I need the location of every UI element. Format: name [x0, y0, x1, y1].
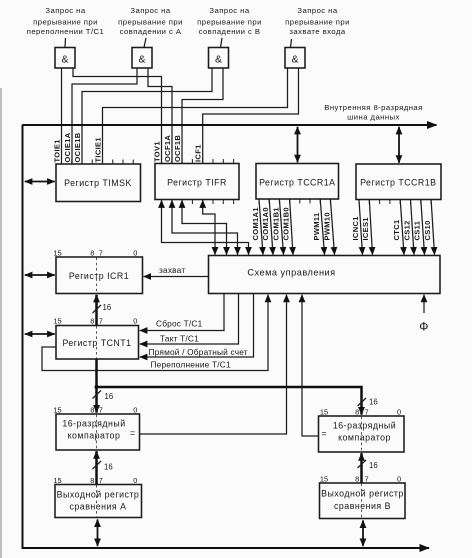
svg-text:7: 7	[99, 406, 103, 415]
svg-text:0: 0	[133, 406, 137, 415]
svg-text:CTC1: CTC1	[392, 220, 401, 241]
output compare register B	[320, 483, 406, 519]
register ICR1	[56, 257, 143, 294]
bus arrow to ICR1 (bidirectional)	[25, 274, 55, 276]
label: interrupt on overflow T/C1	[27, 6, 105, 36]
svg-text:Запрос на: Запрос на	[297, 6, 337, 15]
svg-text:Выходной регистр: Выходной регистр	[57, 490, 140, 500]
register B bit numbers	[320, 475, 401, 484]
output compare register A feed	[95, 451, 98, 484]
svg-text:переполнении Т/С1: переполнении Т/С1	[27, 27, 105, 36]
register A bit numbers	[53, 476, 137, 485]
svg-text:сравнения А: сравнения А	[70, 502, 127, 512]
comparator B output to control	[302, 295, 319, 436]
stub label1 to gate1	[64, 38, 67, 48]
svg-text:16-разрядный: 16-разрядный	[62, 419, 125, 429]
svg-text:15: 15	[320, 475, 328, 484]
slash 16 near comparator B	[358, 398, 367, 406]
svg-text:COM1A0: COM1A0	[261, 207, 270, 240]
svg-text:7: 7	[364, 475, 368, 484]
TIMSK top bit ticks	[62, 160, 134, 165]
svg-text:Схема управления: Схема управления	[247, 268, 335, 278]
wire overflow T/C1	[42, 295, 268, 371]
comparator B bit split dashed	[361, 417, 363, 452]
svg-text:8: 8	[355, 475, 359, 484]
slash 16 compare A feed	[93, 461, 102, 469]
slash 16 compare B feed	[358, 460, 367, 468]
svg-text:8: 8	[90, 476, 94, 485]
svg-text:совпадении с В: совпадении с В	[199, 27, 261, 36]
output compare register B feed	[360, 453, 363, 483]
ICR1 bit numbers	[53, 249, 137, 258]
wire COM1A1	[259, 199, 263, 255]
register TCNT1	[56, 326, 139, 360]
svg-text:Выходной регистр: Выходной регистр	[321, 489, 404, 499]
label: interrupt on compare match A	[118, 6, 183, 36]
svg-text:OCF1B: OCF1B	[173, 135, 182, 162]
svg-text:8: 8	[90, 317, 94, 326]
svg-text:ICNC1: ICNC1	[351, 216, 360, 240]
svg-text:PWM10: PWM10	[322, 212, 331, 240]
svg-text:&: &	[138, 54, 145, 66]
register B bit split dashed	[361, 484, 363, 519]
svg-text:ICF1: ICF1	[193, 144, 202, 162]
register A to bottom bus (bidirectional)	[97, 519, 99, 546]
label: interrupt on compare match B	[197, 6, 262, 36]
wire gate3 to OCIE1B	[82, 68, 212, 164]
svg-text:15: 15	[53, 249, 61, 258]
svg-text:прерывание при: прерывание при	[197, 18, 262, 27]
svg-text:Запрос на: Запрос на	[209, 6, 249, 15]
wire clock T/C1	[140, 294, 239, 345]
slash 16 near comparator A	[93, 391, 102, 399]
16-bit branch to comparator B	[96, 387, 362, 415]
wire gate2 to OCF1A	[148, 68, 172, 164]
wire COM1B0	[290, 199, 293, 255]
wire gate1 to TOIE1	[61, 68, 63, 164]
svg-text:совпадении с А: совпадении с А	[120, 27, 182, 36]
comparator B	[319, 416, 405, 452]
gate U1 (& overflow)	[55, 48, 75, 69]
TCNT1 bit numbers	[53, 317, 137, 326]
register TCCR1B	[356, 164, 441, 200]
register B to bottom bus (bidirectional)	[362, 520, 364, 546]
svg-text:&: &	[61, 54, 68, 66]
bus riser to TCCR1B (bidirectional)	[398, 127, 400, 163]
svg-text:Переполнение Т/С1: Переполнение Т/С1	[151, 360, 231, 370]
svg-text:Ф: Ф	[419, 320, 429, 334]
slash 16 on capture bus	[93, 305, 102, 313]
svg-text:сравнения В: сравнения В	[334, 501, 391, 511]
svg-text:&: &	[291, 54, 298, 66]
wire CS10	[431, 200, 434, 255]
label: interrupt on input capture	[285, 6, 350, 36]
svg-text:=: =	[322, 429, 328, 439]
comparator A output to control	[140, 295, 287, 434]
register TCCR1A	[256, 164, 339, 200]
svg-text:0: 0	[133, 249, 137, 258]
svg-text:16: 16	[104, 463, 113, 472]
svg-text:16: 16	[369, 461, 378, 470]
TCNT1 16-bit bus down to comparators	[95, 359, 98, 413]
bus arrow to TCNT1 (bidirectional)	[25, 333, 55, 335]
label internal data bus	[324, 103, 423, 122]
svg-text:Запрос на: Запрос на	[45, 6, 85, 15]
svg-text:15: 15	[53, 317, 61, 326]
svg-text:Регистр TCCR1A: Регистр TCCR1A	[259, 178, 335, 188]
comparator A bit split dashed	[96, 415, 98, 450]
svg-text:OCIE1B: OCIE1B	[73, 132, 82, 162]
svg-text:15: 15	[53, 476, 61, 485]
comparator A	[56, 414, 140, 450]
svg-text:15: 15	[320, 408, 328, 417]
wire COM1B1	[279, 199, 283, 255]
capture bus TCNT1 to ICR1 16 bit	[95, 295, 98, 326]
gate U4 (& capture)	[285, 48, 305, 69]
svg-text:компаратор: компаратор	[338, 433, 391, 443]
capture wire from control to ICR1	[144, 276, 209, 278]
svg-text:7: 7	[99, 317, 103, 326]
svg-text:COM1B0: COM1B0	[282, 207, 291, 240]
svg-text:7: 7	[99, 249, 103, 258]
gate U3 (& compare B)	[209, 48, 229, 69]
svg-text:8: 8	[90, 249, 94, 258]
svg-text:захвате входа: захвате входа	[289, 27, 345, 36]
wire ICF1 flag to control	[203, 200, 215, 254]
scan edge artifact	[0, 88, 2, 558]
svg-text:0: 0	[397, 475, 401, 484]
svg-text:OCIE1A: OCIE1A	[63, 132, 72, 162]
svg-text:Регистр TCCR1B: Регистр TCCR1B	[360, 178, 436, 188]
bus arrow to TIMSK (bidirectional)	[25, 181, 55, 183]
wire up/down count	[140, 294, 254, 358]
TCCR1B bottom bit ticks	[359, 200, 431, 205]
comparator B bit numbers	[320, 408, 401, 417]
bottom data bus line	[22, 547, 430, 549]
gate U2 (& compare A)	[132, 48, 152, 69]
stub label4 to gate4	[291, 39, 292, 48]
svg-text:прерывание при: прерывание при	[118, 18, 183, 27]
svg-text:16: 16	[105, 392, 114, 401]
svg-text:Прямой / Обратный счет: Прямой / Обратный счет	[149, 347, 248, 357]
svg-text:16: 16	[103, 303, 112, 312]
top data bus line	[23, 124, 437, 126]
wire CS11	[421, 200, 425, 255]
left vertical bus	[22, 125, 24, 549]
svg-text:Регистр TIMSK: Регистр TIMSK	[64, 178, 132, 188]
svg-text:16: 16	[369, 398, 378, 407]
wire OCF1B flag to control	[182, 200, 227, 254]
svg-text:COM1B1: COM1B1	[271, 207, 280, 240]
wire gate1 to TOV1	[73, 68, 162, 164]
wire reset T/C1	[140, 294, 224, 331]
svg-text:TOIE1: TOIE1	[52, 139, 61, 162]
comparator A bit numbers	[53, 406, 137, 415]
svg-text:=: =	[130, 428, 136, 438]
control unit box	[209, 256, 441, 294]
svg-text:прерывание при: прерывание при	[285, 18, 350, 27]
bus riser to TCCR1A (bidirectional)	[297, 127, 299, 163]
wire ICES1	[369, 200, 372, 255]
svg-text:шина данных: шина данных	[347, 113, 400, 122]
svg-text:&: &	[215, 54, 222, 66]
register TIMSK	[56, 164, 141, 202]
svg-text:0: 0	[133, 317, 137, 326]
ICR1 bit split dashed	[96, 258, 98, 294]
svg-text:TICIE1: TICIE1	[93, 137, 102, 162]
svg-text:8: 8	[355, 408, 359, 417]
svg-text:прерывание при: прерывание при	[33, 18, 98, 27]
svg-text:компаратор: компаратор	[68, 431, 121, 441]
stub label2 to gate2	[144, 38, 146, 48]
junction dot	[95, 385, 99, 389]
svg-text:16-разрядный: 16-разрядный	[333, 421, 396, 431]
wire CS12	[411, 200, 415, 255]
TCNT1 bit split dashed	[96, 326, 98, 359]
svg-text:CS10: CS10	[423, 220, 432, 240]
stub label3 to gate3	[221, 38, 223, 48]
svg-text:15: 15	[53, 406, 61, 415]
wire gate2 to OCIE1A	[72, 68, 137, 164]
wire gate3 to OCF1B	[182, 68, 223, 164]
TCCR1A bottom bit ticks	[259, 199, 330, 204]
svg-text:7: 7	[364, 408, 368, 417]
svg-text:PWM11: PWM11	[312, 212, 321, 240]
output compare register A	[55, 485, 142, 518]
svg-text:CS11: CS11	[413, 221, 422, 241]
clock phi input	[423, 295, 425, 313]
wire ICNC1	[359, 200, 363, 255]
svg-text:8: 8	[90, 406, 94, 415]
svg-text:Регистр TCNT1: Регистр TCNT1	[62, 338, 131, 348]
svg-text:TOV1: TOV1	[152, 141, 161, 162]
svg-text:CS12: CS12	[402, 220, 411, 240]
svg-text:Внутренняя 8-разрядная: Внутренняя 8-разрядная	[324, 103, 423, 112]
svg-text:Запрос на: Запрос на	[130, 6, 170, 15]
svg-text:Регистр ICR1: Регистр ICR1	[69, 271, 129, 281]
svg-text:OCF1A: OCF1A	[163, 135, 172, 162]
wire gate4 to TICIE1	[103, 68, 288, 164]
wire PWM10	[330, 199, 334, 255]
svg-text:Такт Т/С1: Такт Т/С1	[160, 334, 199, 344]
wire PWM11	[320, 199, 324, 255]
TIFR bottom bit ticks	[162, 200, 234, 205]
wire gate4 to ICF1	[203, 68, 299, 164]
wire COM1A0	[269, 199, 273, 255]
svg-text:7: 7	[99, 476, 103, 485]
svg-text:COM1A1: COM1A1	[251, 207, 260, 240]
wire TOV1 flag to control	[162, 200, 249, 254]
wire OCF1A flag to control	[172, 200, 238, 254]
svg-text:Регистр TIFR: Регистр TIFR	[167, 178, 227, 188]
register TIFR	[155, 164, 239, 200]
wire CTC1	[400, 200, 404, 255]
svg-text:Сброс Т/С1: Сброс Т/С1	[156, 319, 203, 329]
svg-text:ICES1: ICES1	[361, 217, 370, 240]
svg-text:захват: захват	[159, 265, 185, 275]
svg-text:0: 0	[133, 476, 137, 485]
register A bit split dashed	[96, 485, 98, 517]
svg-text:0: 0	[397, 408, 401, 417]
TIFR top bit ticks	[162, 159, 234, 164]
